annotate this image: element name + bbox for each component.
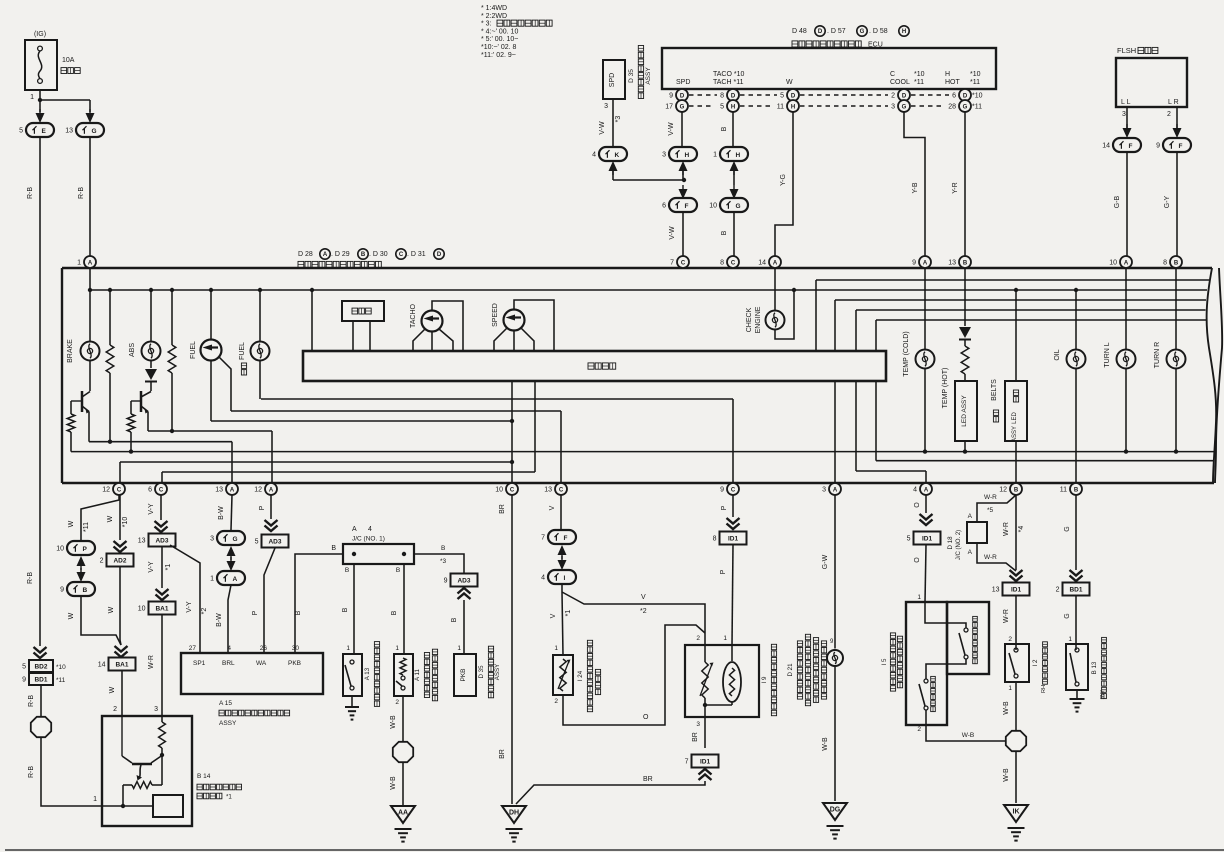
svg-text:ID1: ID1	[1011, 587, 1022, 594]
meter bottom pin 4A	[920, 483, 932, 495]
ground DG	[823, 803, 847, 820]
connector 10 BA1	[149, 602, 176, 615]
wire BD1 to grommet	[40, 685, 42, 716]
svg-text:I 9: I 9	[761, 676, 768, 683]
svg-text:3: 3	[604, 103, 608, 110]
wire TURN L return	[1125, 369, 1127, 452]
svg-text:9: 9	[22, 677, 26, 684]
svg-text:1: 1	[77, 260, 81, 267]
svg-text:G: G	[680, 104, 685, 110]
svg-text:K: K	[615, 152, 620, 159]
wire R-B left rail	[39, 137, 41, 646]
wire V star1	[562, 592, 563, 655]
meter top pin 13B	[959, 256, 971, 268]
ground AA	[391, 806, 415, 823]
svg-text:*1: *1	[565, 610, 572, 617]
gauge TACHO	[422, 311, 443, 332]
svg-text:AD3: AD3	[155, 538, 168, 545]
wire JC1 to A15 PKB	[295, 554, 343, 653]
svg-text:1: 1	[1008, 685, 1012, 692]
connector 2 AD2 chevrons	[114, 541, 127, 547]
svg-text:H: H	[731, 104, 735, 110]
wire JC1 right to AD3	[414, 554, 464, 573]
svg-text:B-W: B-W	[218, 506, 225, 520]
wire junction to IG branch	[40, 99, 90, 101]
svg-text:27: 27	[189, 645, 197, 652]
svg-text:D: D	[680, 93, 685, 99]
svg-text:H: H	[685, 152, 690, 159]
wire II down	[561, 584, 563, 592]
svg-text:BD1: BD1	[34, 677, 47, 684]
junction connector D18 JC2	[967, 522, 987, 543]
svg-text:C: C	[890, 71, 895, 78]
wire TEMP COLD return	[924, 369, 926, 452]
svg-text:B: B	[451, 617, 458, 622]
svg-text:FLSH: FLSH	[1117, 46, 1136, 55]
svg-text:10A: 10A	[62, 57, 75, 64]
connector 13 IG arrow	[86, 113, 95, 123]
svg-text:D 48: D 48	[792, 28, 807, 35]
svg-text:9: 9	[669, 93, 673, 100]
svg-text:14: 14	[758, 260, 766, 267]
svg-text:W-R: W-R	[1003, 609, 1010, 623]
wire IK to junction	[612, 171, 614, 180]
meter top pin 14A	[769, 256, 781, 268]
gauge FUEL	[210, 290, 212, 340]
wire L8 6C to control	[162, 471, 535, 473]
svg-text:B: B	[83, 587, 88, 594]
svg-text:G-B: G-B	[1114, 195, 1121, 208]
svg-text:*10: *10	[914, 71, 925, 78]
svg-text:BD1: BD1	[1069, 587, 1082, 594]
wire 13A B-W	[231, 495, 232, 530]
connector 14 BA1 chevrons	[115, 646, 128, 652]
svg-text:W-B: W-B	[962, 732, 975, 739]
svg-text:2: 2	[395, 699, 399, 706]
svg-text:ENGINE: ENGINE	[755, 306, 762, 333]
svg-text:SW: SW	[1100, 690, 1106, 700]
connector 5 ID1	[914, 532, 941, 545]
lamp seat belt warning	[827, 650, 843, 666]
svg-text:C: C	[510, 487, 515, 493]
BELTS LED box	[1015, 290, 1017, 381]
connector 2 BD1 chevrons	[1070, 570, 1083, 576]
wire CHECK ENGINE loop	[775, 290, 794, 339]
B14 meter speed sensor box	[102, 716, 192, 826]
ECU pin 3 G row2	[898, 100, 910, 112]
svg-text:A: A	[323, 252, 328, 258]
connector 5 AD3	[262, 535, 289, 548]
svg-text:*11: *11	[56, 677, 66, 684]
svg-text:I 24: I 24	[577, 670, 584, 681]
svg-text:BR: BR	[499, 504, 506, 514]
svg-text:D 35: D 35	[628, 69, 635, 83]
connector 2 BD1	[1063, 583, 1090, 596]
svg-text:I 2: I 2	[1032, 659, 1039, 666]
wire ctrl in2	[835, 299, 1206, 301]
wire 12A P	[270, 495, 272, 519]
resistor R4 bias	[130, 401, 132, 414]
wire 8ID1 P chain	[732, 495, 734, 517]
svg-text:* 5:' 00. 10~: * 5:' 00. 10~	[481, 36, 518, 43]
wire L7 12C link	[120, 461, 512, 463]
wire R-B to meter pin 1A	[89, 137, 91, 256]
svg-text:*2: *2	[640, 608, 647, 615]
transistor Q2	[140, 391, 143, 412]
grommet A11	[393, 742, 413, 762]
wire IB down	[81, 596, 121, 645]
svg-text:1: 1	[395, 645, 399, 652]
connector 10 IP	[67, 541, 95, 555]
meter bottom pin 9C	[727, 483, 739, 495]
svg-text:A: A	[88, 260, 93, 266]
wire COOL Y-B to pin 9A	[904, 111, 925, 256]
svg-text:BA1: BA1	[155, 606, 168, 613]
wire 10C BR to ground	[511, 495, 513, 804]
svg-text:A: A	[924, 487, 929, 493]
svg-text:W: W	[786, 79, 793, 86]
wire 1A to BRAKE	[89, 268, 91, 341]
svg-text:2: 2	[891, 93, 895, 100]
fuel sender bobbin	[731, 645, 733, 661]
svg-text:V-Y: V-Y	[186, 601, 193, 613]
connector 6 IF arrow	[679, 189, 688, 199]
meter bottom pin 6C	[155, 483, 167, 495]
svg-text:D: D	[731, 93, 736, 99]
svg-text:*3: *3	[615, 116, 622, 123]
svg-text:D 28: D 28	[298, 251, 313, 258]
svg-text:C: C	[559, 487, 564, 493]
grommet left	[31, 717, 51, 737]
connector 8 ID1 chevrons	[727, 518, 740, 524]
connector 10 BA1 chevrons	[156, 589, 169, 595]
wire V star2 branch	[562, 592, 705, 645]
meter bottom pin 12C	[113, 483, 125, 495]
wire ID1 to sensor	[925, 545, 926, 602]
svg-text:W-R: W-R	[984, 494, 997, 501]
svg-text:4: 4	[368, 526, 372, 533]
svg-text:* 3:: * 3:	[481, 21, 492, 28]
svg-text:AD2: AD2	[113, 558, 126, 565]
svg-text:4: 4	[227, 645, 231, 652]
svg-text:6: 6	[148, 487, 152, 494]
fuse 10A METER (IG)	[25, 40, 57, 90]
svg-text:HOT: HOT	[945, 79, 961, 86]
svg-text:1: 1	[554, 645, 558, 652]
svg-text:TEMP (HOT): TEMP (HOT)	[942, 368, 949, 409]
wire V-Y star2 to A15 SP1	[170, 545, 200, 653]
connector 5 IE arrow	[36, 113, 45, 123]
svg-text:10: 10	[495, 487, 503, 494]
svg-text:B: B	[721, 230, 728, 235]
svg-text:10: 10	[1109, 260, 1117, 267]
svg-text:W: W	[68, 612, 75, 619]
svg-text:E: E	[42, 128, 47, 135]
svg-text:SPD: SPD	[676, 79, 690, 86]
wire ID1 to fuel pin1	[732, 545, 733, 645]
svg-text:BELTS: BELTS	[991, 379, 998, 401]
wire FUEL side to L2	[219, 357, 231, 411]
svg-text:*5: *5	[987, 507, 994, 514]
wire ctrl out 3A	[834, 381, 836, 483]
svg-text:Y-B: Y-B	[912, 182, 919, 193]
svg-text:10: 10	[709, 203, 717, 210]
svg-text:12: 12	[999, 487, 1007, 494]
wire L2 fuel to 13C	[231, 410, 561, 412]
svg-text:1: 1	[457, 645, 461, 652]
oil switch ground	[1076, 690, 1078, 698]
ECU dashed links row1	[689, 94, 717, 96]
svg-text:B: B	[342, 607, 349, 612]
wire OIL to pin 11B	[1075, 369, 1077, 484]
svg-text:1: 1	[210, 576, 214, 583]
svg-text:2: 2	[696, 635, 700, 642]
connector 8 ID1	[720, 532, 747, 545]
svg-text:H: H	[945, 71, 950, 78]
svg-text:C: C	[117, 487, 122, 493]
svg-text:ID1: ID1	[700, 759, 711, 766]
svg-text:FUEL: FUEL	[190, 341, 197, 359]
svg-text:3: 3	[154, 706, 158, 713]
connector 7 ID1 chevrons	[699, 775, 712, 781]
lamp FUEL level	[259, 290, 261, 341]
svg-text:2: 2	[1167, 111, 1171, 118]
svg-text:9: 9	[1156, 143, 1160, 150]
svg-text:O: O	[914, 557, 921, 563]
wire 1IH to 10IG	[733, 171, 735, 185]
svg-text:B: B	[361, 252, 366, 258]
svg-text:G: G	[92, 128, 97, 135]
connector 9 BD1	[29, 673, 53, 685]
svg-text:9: 9	[720, 487, 724, 494]
svg-text:*4: *4	[1018, 526, 1025, 533]
svg-text:J/C (NO. 1): J/C (NO. 1)	[352, 536, 385, 543]
svg-text:SPD: SPD	[609, 73, 616, 87]
svg-text:*2: *2	[201, 608, 208, 615]
svg-text:W: W	[109, 686, 116, 693]
connector 9 AD3	[451, 574, 478, 587]
svg-text:V: V	[549, 505, 556, 510]
svg-text:R-B: R-B	[78, 187, 85, 199]
svg-text:5: 5	[907, 536, 911, 543]
wire ctrl out L9	[875, 381, 877, 461]
svg-text:3: 3	[891, 104, 895, 111]
meter top pin 1A	[84, 256, 96, 268]
svg-text:5: 5	[780, 93, 784, 100]
combination meter outline	[62, 267, 1212, 269]
svg-text:B-W: B-W	[216, 613, 223, 627]
svg-text:7: 7	[541, 535, 545, 542]
svg-text:A: A	[352, 526, 357, 533]
svg-text:SPEED: SPEED	[492, 303, 499, 327]
lamp CHECK ENGINE	[774, 268, 776, 311]
svg-text:B: B	[1014, 487, 1019, 493]
wire ctrl out L10 to 4A	[855, 381, 857, 471]
wire L4 Q2 to 12A	[148, 430, 272, 432]
svg-text:D: D	[902, 93, 907, 99]
svg-text:ASSY: ASSY	[1012, 426, 1018, 442]
svg-text:G: G	[860, 29, 865, 35]
svg-text:LED ASSY: LED ASSY	[961, 395, 968, 427]
svg-text:PKB: PKB	[460, 668, 467, 681]
connector 9 IB	[67, 582, 95, 596]
svg-text:A: A	[968, 513, 973, 520]
wire 12B to JC2	[977, 495, 1016, 522]
connector 3 IG lower	[217, 531, 245, 545]
ECU pin 6 D row1	[959, 89, 971, 101]
ECU pin 11 H row2	[787, 100, 799, 112]
meter bottom pin 12A	[265, 483, 277, 495]
connector 14 BA1	[109, 658, 136, 671]
svg-text:ASSY: ASSY	[494, 664, 501, 681]
connector 4 II	[548, 570, 576, 584]
ECU pin 9 D row1	[676, 89, 688, 101]
connector 4 IK	[599, 147, 627, 161]
svg-text:W-B: W-B	[1003, 768, 1010, 782]
svg-text:R-B: R-B	[27, 187, 34, 199]
svg-text:4: 4	[541, 575, 545, 582]
svg-text:A: A	[1124, 260, 1129, 266]
svg-text:F: F	[1129, 143, 1133, 150]
svg-text:2: 2	[554, 698, 558, 705]
wire buckle to grommet	[1015, 682, 1017, 730]
connector 3 IH arrow	[679, 161, 688, 171]
connector 7 IF lower	[548, 530, 576, 544]
svg-text:B 14: B 14	[197, 773, 211, 780]
svg-text:*10:~' 02. 8: *10:~' 02. 8	[481, 44, 517, 51]
svg-text:13: 13	[65, 128, 73, 135]
lamp BRAKE	[81, 342, 100, 361]
svg-text:8: 8	[1163, 260, 1167, 267]
svg-text:O: O	[914, 502, 921, 508]
svg-text:13: 13	[948, 260, 956, 267]
ECU pin 28 G row2	[959, 100, 971, 112]
svg-text:ASSY: ASSY	[645, 67, 652, 85]
LED ASSY box TEMP	[955, 381, 977, 441]
svg-text:AA: AA	[398, 810, 408, 817]
svg-text:B: B	[295, 610, 302, 615]
svg-text:B: B	[1074, 487, 1079, 493]
svg-text:*10: *10	[970, 71, 981, 78]
meter bottom pin 13A	[226, 483, 238, 495]
B14 bottom wire	[102, 805, 153, 807]
svg-text:2: 2	[113, 706, 117, 713]
resistor R5 TEMP HOT	[964, 340, 966, 346]
transistor Q1	[81, 391, 84, 412]
wire BA1 to B14 pin2	[121, 671, 123, 716]
svg-text:*11: *11	[972, 104, 982, 111]
svg-text:BRL: BRL	[222, 660, 235, 667]
svg-text:L L: L L	[1121, 99, 1131, 106]
connector 7 ID1	[692, 755, 719, 768]
connector 9 AD3 chevrons	[458, 594, 471, 600]
svg-text:3: 3	[210, 536, 214, 543]
lamp OIL	[1075, 290, 1077, 350]
lamp TURN R	[1175, 268, 1177, 350]
connector 4 IK arrow	[609, 161, 618, 171]
wire TACH B upper	[732, 111, 734, 148]
gauge SPEED	[504, 310, 525, 331]
svg-text:9: 9	[444, 578, 448, 585]
wire 12B W-R	[1015, 495, 1017, 570]
svg-text:AD3: AD3	[457, 578, 470, 585]
svg-text:17: 17	[665, 104, 673, 111]
wire L3 fuel to 10C	[211, 420, 512, 422]
svg-text:P: P	[721, 505, 728, 510]
svg-text:1: 1	[30, 94, 34, 101]
wire BA1 to B14 pin3	[161, 615, 163, 716]
wire TURN R return	[1175, 369, 1177, 452]
connector 13 AD3	[149, 534, 176, 547]
svg-text:D 18: D 18	[947, 536, 954, 550]
wire AD3 to BA1	[161, 547, 163, 588]
svg-text:V: V	[641, 594, 646, 601]
svg-text:G: G	[902, 104, 907, 110]
wire JC1 to A11	[403, 564, 405, 654]
control circuit box	[303, 351, 886, 381]
svg-text:5: 5	[22, 664, 26, 671]
wire AD3 to PKB	[463, 600, 465, 654]
svg-text:BA1: BA1	[115, 662, 128, 669]
svg-text:A: A	[233, 576, 238, 583]
svg-text:H: H	[791, 104, 795, 110]
svg-text:2: 2	[1008, 636, 1012, 643]
wire L1 fuel-level to 9C	[261, 398, 733, 400]
svg-text:B: B	[963, 260, 968, 266]
svg-text:PKB: PKB	[288, 660, 301, 667]
svg-text:H: H	[902, 29, 906, 35]
meter bottom pin 12B	[1010, 483, 1022, 495]
svg-text:AD3: AD3	[268, 539, 281, 546]
ground IK	[1004, 805, 1028, 822]
svg-text:14: 14	[1102, 143, 1110, 150]
connector 6 IF	[669, 198, 697, 212]
buzzer box	[342, 301, 384, 321]
meter bottom pin 13C	[555, 483, 567, 495]
svg-text:BR: BR	[643, 776, 653, 783]
resistor R3 bias	[70, 401, 72, 414]
svg-text:B: B	[441, 545, 445, 552]
occupant sensor switch	[925, 602, 966, 628]
svg-text:TACHO: TACHO	[410, 303, 417, 328]
wire G-Y to pin 8B	[1176, 152, 1178, 256]
ECU box	[662, 48, 996, 89]
svg-text:G: G	[1064, 613, 1071, 618]
radio receiver SPD box D35	[603, 60, 625, 99]
svg-text:TURN L: TURN L	[1104, 342, 1111, 367]
wire ctrl in1	[816, 279, 1209, 281]
connector 13 IG	[76, 123, 104, 137]
svg-text:13: 13	[138, 538, 146, 545]
wire JC2 to 12B main	[977, 543, 1016, 571]
ECU dashed links row2	[689, 105, 714, 107]
ECU pin 5 H row2	[727, 100, 739, 112]
svg-text:W-R: W-R	[1003, 522, 1010, 536]
svg-text:14: 14	[98, 662, 106, 669]
wire bus tap to control box	[311, 290, 313, 351]
connector 5 AD3 chevrons	[265, 520, 278, 526]
meter bottom pin 3A	[829, 483, 841, 495]
svg-text:F: F	[564, 535, 568, 542]
svg-text:13: 13	[215, 487, 223, 494]
svg-text:P: P	[83, 546, 88, 553]
svg-text:*10: *10	[972, 93, 983, 100]
wire ID1 to buckle RH	[1015, 596, 1017, 650]
svg-text:V-W: V-W	[668, 122, 675, 136]
svg-text:V-Y: V-Y	[148, 503, 155, 515]
wire 4A O	[925, 495, 927, 513]
wire 12C to AD2	[119, 495, 121, 540]
